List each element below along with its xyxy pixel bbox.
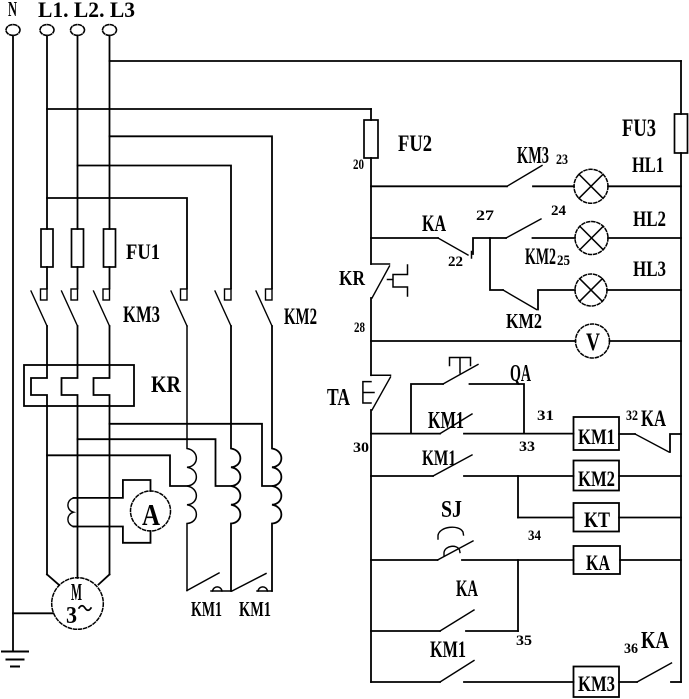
- wire L3 vertical upper: [109, 35, 111, 229]
- wire L1 vertical upper: [46, 35, 48, 229]
- svg-text:KM1: KM1: [428, 408, 464, 434]
- contact KM3 NO: [507, 166, 542, 187]
- wire L3 fuse to contact: [109, 267, 111, 289]
- contact KM2 NO 24: [506, 219, 541, 238]
- contact KM1 NO: [433, 455, 472, 476]
- wire L1 branch to KM2 pole1: [47, 198, 187, 289]
- branch QA: [411, 384, 443, 434]
- svg-text:FU2: FU2: [398, 131, 432, 156]
- svg-text:33: 33: [519, 439, 535, 455]
- fuse FU2: [370, 109, 372, 120]
- svg-text:KM1: KM1: [422, 445, 456, 470]
- wire L2 contact to KR: [77, 326, 79, 365]
- terminal L1: [40, 25, 54, 36]
- svg-text:KM2: KM2: [578, 466, 615, 491]
- svg-text:L1. L2. L3: L1. L2. L3: [38, 0, 135, 22]
- rung HL2: [371, 237, 438, 239]
- svg-text:KM2: KM2: [284, 304, 317, 329]
- svg-text:30: 30: [353, 440, 369, 456]
- contact KA NO: [440, 610, 474, 631]
- svg-text:34: 34: [528, 528, 541, 544]
- button QA NO: [443, 358, 478, 385]
- autotransformer coil 1: [187, 326, 196, 591]
- wire L1 below KR: [46, 406, 48, 574]
- wire L2 below KR: [77, 406, 79, 578]
- svg-text:TA: TA: [327, 385, 350, 411]
- svg-text:KM3: KM3: [123, 302, 160, 327]
- wire tap B from L2 to coil2: [78, 439, 232, 486]
- svg-text:KA: KA: [422, 211, 446, 236]
- motor M: [52, 578, 104, 630]
- fuse FU3: [680, 61, 682, 114]
- rung KM1 coil: [371, 433, 440, 435]
- contactor KM1 star pole1: [187, 573, 231, 591]
- fuse FU1 pole1: [41, 229, 53, 267]
- svg-text:20: 20: [353, 157, 364, 173]
- ground: [2, 652, 28, 667]
- thermal relay KR box: [24, 365, 134, 406]
- branch KA contact: [517, 560, 519, 631]
- svg-text:V: V: [586, 329, 600, 356]
- svg-text:27: 27: [476, 208, 495, 224]
- autotransformer coil 3: [272, 326, 281, 591]
- svg-text:32: 32: [626, 408, 638, 424]
- rung KA coil: [371, 559, 438, 561]
- svg-text:KM1: KM1: [191, 597, 222, 621]
- contact KM1 NO: [440, 414, 472, 434]
- rung KM2 coil: [371, 475, 433, 477]
- svg-text:KM2: KM2: [525, 244, 556, 269]
- svg-text:A: A: [142, 497, 160, 532]
- wire L1 contact to KR: [46, 326, 48, 365]
- KR heater element 2: [62, 365, 78, 406]
- right control rail: [680, 153, 682, 682]
- svg-text:31: 31: [537, 408, 554, 424]
- svg-text:KA: KA: [456, 576, 478, 601]
- svg-text:KM1: KM1: [578, 424, 615, 449]
- svg-text:28: 28: [354, 320, 365, 336]
- svg-text:HL1: HL1: [632, 152, 664, 177]
- wire L1 fuse to contact: [46, 267, 48, 289]
- contact KA NC 32: [619, 433, 635, 435]
- contactor KM3 pole3: [94, 289, 110, 326]
- node 22: [471, 252, 473, 259]
- svg-text:KA: KA: [641, 628, 670, 654]
- svg-text:KM1: KM1: [239, 597, 271, 621]
- contactor KM3 pole2: [62, 289, 78, 326]
- left rail lower: [370, 410, 372, 682]
- coil KM3: [574, 667, 620, 698]
- wire L3 contact to KR: [109, 326, 111, 365]
- voltmeter V: [576, 324, 610, 358]
- ammeter A: [131, 491, 171, 531]
- svg-text:3: 3: [66, 603, 77, 629]
- wire ammeter top: [74, 480, 151, 498]
- svg-text:KA: KA: [641, 406, 666, 431]
- KR heater element 1: [31, 365, 47, 406]
- svg-text:KM3: KM3: [578, 671, 615, 696]
- svg-text:SJ: SJ: [441, 497, 462, 523]
- svg-text:KM1: KM1: [430, 637, 466, 662]
- rung KA contact: [371, 630, 440, 632]
- wire ammeter bottom: [74, 527, 151, 543]
- contactor KM2 pole1: [171, 289, 187, 326]
- contact KA NC 36: [619, 681, 637, 683]
- svg-text:24: 24: [551, 203, 567, 219]
- wire tap A from L3 to coil3: [110, 424, 273, 486]
- lamp HL3: [575, 274, 607, 306]
- coil KA: [574, 546, 621, 574]
- autotransformer coil 2: [231, 326, 240, 591]
- current transformer winding on L2: [68, 498, 78, 527]
- rung HL1: [371, 185, 507, 187]
- lamp HL1: [574, 169, 608, 203]
- wire L2 branch to KM2 pole2: [78, 166, 232, 289]
- svg-text:KA: KA: [586, 550, 610, 575]
- rung KT coil: [518, 517, 574, 519]
- rung voltmeter: [371, 340, 576, 342]
- svg-text:N: N: [8, 0, 17, 21]
- contactor KM2 pole2: [215, 289, 231, 326]
- coil KM2: [574, 461, 620, 491]
- contact KA changeover: [438, 238, 468, 255]
- contact SJ delay: [438, 527, 474, 560]
- contact KM2 NO 25: [503, 290, 537, 310]
- fuse FU1 pole2: [72, 229, 84, 267]
- svg-text:23: 23: [556, 152, 568, 168]
- terminal N: [6, 25, 20, 36]
- fuse FU1 pole3: [104, 229, 116, 267]
- wire L1 branch to FU2: [47, 108, 371, 110]
- contact TA NC: [363, 375, 391, 410]
- svg-text:25: 25: [557, 253, 570, 269]
- wire N to motor: [13, 612, 53, 614]
- rung KM3 coil: [371, 681, 440, 683]
- coil KM1: [574, 417, 620, 450]
- svg-text:KM2: KM2: [506, 309, 542, 333]
- svg-text:FU1: FU1: [126, 239, 160, 264]
- terminal L2: [71, 25, 85, 36]
- left rail mid: [370, 298, 372, 375]
- contact KM1 NO: [440, 661, 474, 683]
- svg-text:KR: KR: [151, 372, 181, 397]
- node 34 vertical: [517, 476, 519, 518]
- wire L3 top branch to FU3: [110, 60, 682, 62]
- wire L2 vertical upper: [77, 35, 79, 229]
- wire L3 branch to KM2 pole3: [110, 136, 273, 288]
- svg-text:HL3: HL3: [633, 256, 666, 281]
- contactor KM1 star pole2: [232, 574, 272, 592]
- svg-text:FU3: FU3: [622, 115, 656, 142]
- svg-text:KM3: KM3: [517, 143, 549, 169]
- contact KR NC: [371, 264, 408, 298]
- motor lead right: [99, 574, 110, 584]
- svg-text:KT: KT: [584, 507, 610, 532]
- svg-text:36: 36: [624, 641, 638, 657]
- wire tap C from L1 to coil1: [47, 455, 187, 486]
- wire L3 below KR: [109, 406, 111, 574]
- branch to HL3: [490, 238, 503, 290]
- lamp HL2: [575, 222, 608, 255]
- contactor KM3 pole1: [31, 289, 47, 326]
- left control rail: [370, 158, 372, 264]
- motor lead left: [47, 574, 59, 584]
- wire N vertical: [12, 35, 14, 651]
- svg-text:22: 22: [448, 254, 463, 270]
- terminal L3: [103, 25, 117, 36]
- wire L2 fuse to contact: [77, 267, 79, 289]
- svg-text:35: 35: [516, 633, 532, 649]
- KR heater element 3: [94, 365, 110, 406]
- contactor KM2 pole3: [256, 289, 272, 326]
- svg-text:HL2: HL2: [633, 206, 666, 231]
- coil KT: [574, 503, 620, 532]
- svg-text:KR: KR: [339, 266, 366, 290]
